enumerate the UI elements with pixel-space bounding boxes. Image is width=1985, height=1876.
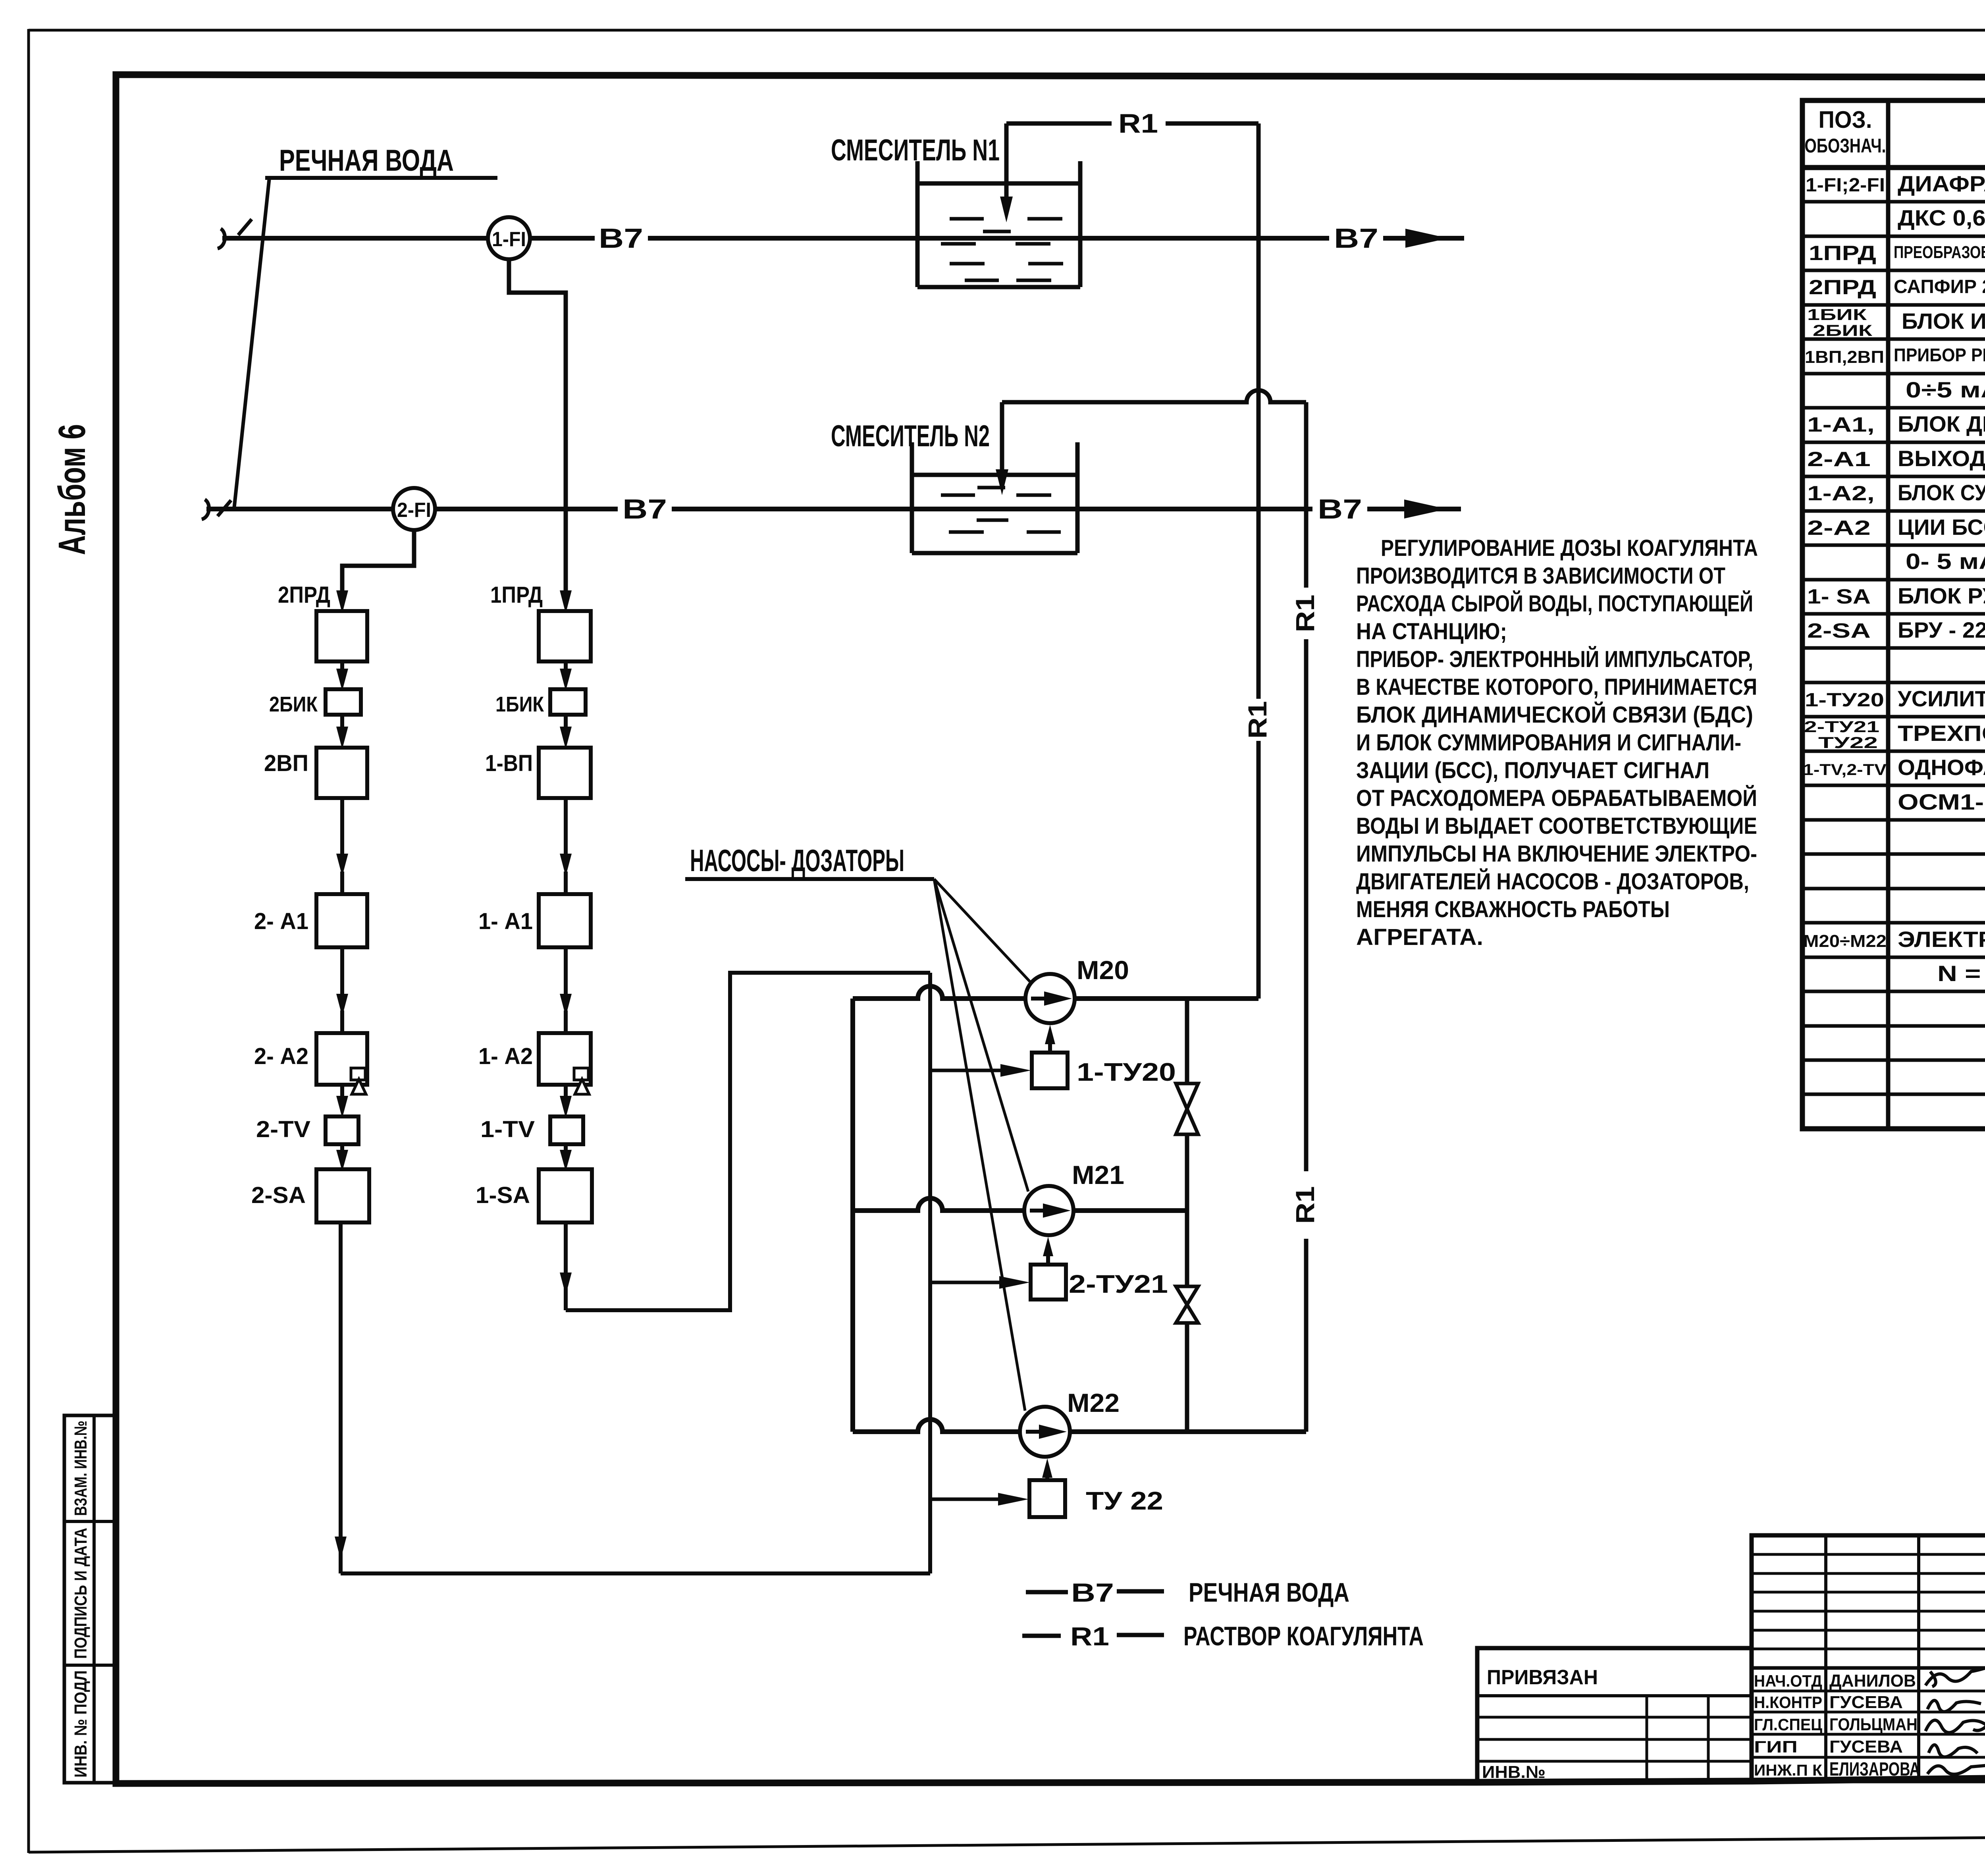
- block 2-TV: [326, 1116, 358, 1144]
- pump M22: [1020, 1407, 1070, 1457]
- svg-text:ДИАФРАГМА КАМЕРНАЯ Ду=200: ДИАФРАГМА КАМЕРНАЯ Ду=200: [1898, 171, 1985, 196]
- svg-text:Н.КОНТР: Н.КОНТР: [1754, 1693, 1822, 1712]
- thyristor unit TU22: [1029, 1480, 1065, 1517]
- svg-text:N = 0,55 кВт: N = 0,55 кВт: [1937, 961, 1985, 986]
- legend B7: [1026, 1590, 1068, 1595]
- alarm symbol on 2-A2: [351, 1068, 365, 1080]
- svg-text:ЕЛИЗАРОВА: ЕЛИЗАРОВА: [1829, 1759, 1920, 1780]
- underline nasosy-dozatory: [685, 877, 934, 881]
- signature squiggle 2: [1927, 1701, 1981, 1712]
- svg-text:БЛОК ДИНАМИЧЕСКОЙ СВЯЗИ (БД: БЛОК ДИНАМИЧЕСКОЙ СВЯЗИ (БДС): [1356, 702, 1753, 728]
- svg-text:ПРИБОР- ЭЛЕКТРОННЫЙ ИМПУЛЬСАТ: ПРИБОР- ЭЛЕКТРОННЫЙ ИМПУЛЬСАТОР,: [1356, 646, 1753, 672]
- svg-text:УСИЛИТЕЛЬ ТИРИСТОРНЫЙ: УСИЛИТЕЛЬ ТИРИСТОРНЫЙ: [1898, 686, 1985, 711]
- svg-text:1ПРД: 1ПРД: [490, 582, 543, 608]
- svg-text:ИНЖ.П К: ИНЖ.П К: [1754, 1762, 1823, 1779]
- svg-text:2ПРД: 2ПРД: [278, 582, 330, 608]
- block 1-SA: [539, 1169, 592, 1222]
- svg-text:ЗАЦИИ (БСС), ПОЛУЧАЕТ СИГНА: ЗАЦИИ (БСС), ПОЛУЧАЕТ СИГНАЛ: [1356, 758, 1709, 783]
- bypass valve line: [1185, 999, 1189, 1084]
- control vertical to thyristor units: [928, 973, 932, 1573]
- svg-text:ГИП: ГИП: [1754, 1737, 1798, 1756]
- svg-text:БЛОК ИЗВЛЕЧЕНИЯ КОРНЯ БИК-1: БЛОК ИЗВЛЕЧЕНИЯ КОРНЯ БИК-1: [1902, 308, 1985, 334]
- inlet slash tick on line 1: [238, 219, 252, 235]
- svg-text:2БИК: 2БИК: [269, 692, 318, 716]
- svg-text:В КАЧЕСТВЕ КОТОРОГО, ПРИНИМ: В КАЧЕСТВЕ КОТОРОГО, ПРИНИМАЕТСЯ: [1356, 674, 1757, 700]
- pipe M22 with hop: [853, 1419, 1020, 1432]
- wire 2-TV to 2-SA: [340, 1144, 344, 1155]
- svg-text:1БИК: 1БИК: [1807, 306, 1867, 324]
- svg-text:2-SA: 2-SA: [1807, 619, 1871, 642]
- inlet slash tick on line 2: [218, 500, 231, 516]
- svg-text:2-А1: 2-А1: [1807, 448, 1871, 471]
- block 2BIK: [326, 689, 361, 715]
- svg-text:ИМПУЛЬСЫ НА ВКЛЮЧЕНИЕ ЭЛЕКТ: ИМПУЛЬСЫ НА ВКЛЮЧЕНИЕ ЭЛЕКТРО-: [1356, 841, 1757, 867]
- svg-text:R1: R1: [1070, 1621, 1109, 1651]
- album side strip: [64, 1415, 116, 1783]
- break mark line 2: [202, 499, 209, 519]
- svg-text:ОТ РАСХОДОМЕРА ОБРАБАТЫВАЕМО: ОТ РАСХОДОМЕРА ОБРАБАТЫВАЕМОЙ: [1356, 785, 1757, 811]
- flow meter 1-FI: [488, 217, 530, 259]
- svg-text:РЕЧНАЯ ВОДА: РЕЧНАЯ ВОДА: [1189, 1577, 1349, 1608]
- svg-text:НАЧ.ОТД: НАЧ.ОТД: [1754, 1672, 1822, 1690]
- mixer 2 ripples: [941, 488, 1061, 532]
- pipe M21 with hop: [853, 1198, 1024, 1211]
- wire 1BIK to 1-VP: [564, 715, 568, 731]
- svg-text:2-ТУ21: 2-ТУ21: [1804, 718, 1879, 736]
- wire 2-A1 to 2-A2: [340, 947, 344, 997]
- block 1-A1: [539, 894, 591, 947]
- svg-text:БРУ - 22. ВЫХОДНОЙ СИГНАЛ: БРУ - 22. ВЫХОДНОЙ СИГНАЛ: [1898, 617, 1985, 642]
- svg-text:ГУСЕВА: ГУСЕВА: [1829, 1737, 1903, 1756]
- svg-text:АГРЕГАТА.: АГРЕГАТА.: [1356, 924, 1483, 950]
- wire 1-A2 to 1-TV: [564, 1085, 568, 1100]
- wire 2VP to 2-A1: [340, 798, 344, 858]
- valve 1: [1176, 1084, 1198, 1134]
- wire 1-VP to 1-A1: [564, 798, 568, 858]
- block 2-A1: [316, 894, 367, 947]
- svg-text:ЭЛЕКТРОДВИГАТЕЛЬ 4АА71А4: ЭЛЕКТРОДВИГАТЕЛЬ 4АА71А4: [1898, 927, 1985, 952]
- wire 2-A2 to 2-TV: [340, 1085, 344, 1100]
- block 2VP: [316, 748, 367, 798]
- svg-text:1-FI;2-FI: 1-FI;2-FI: [1806, 175, 1885, 196]
- pump M21: [1024, 1186, 1073, 1235]
- svg-text:R1: R1: [1290, 1186, 1320, 1224]
- inlet label underline: [265, 176, 497, 180]
- block 1-TV: [550, 1116, 583, 1144]
- svg-text:ИНВ.№: ИНВ.№: [1482, 1762, 1546, 1782]
- svg-text:2ВП: 2ВП: [264, 750, 308, 776]
- block 2-SA: [316, 1169, 369, 1222]
- svg-text:ДАНИЛОВ: ДАНИЛОВ: [1829, 1671, 1916, 1691]
- wire 2BIK to 2VP: [340, 715, 344, 731]
- break mark line 1: [218, 229, 225, 249]
- svg-text:ПРОИЗВОДИТСЯ В ЗАВИСИМОСТИ: ПРОИЗВОДИТСЯ В ЗАВИСИМОСТИ ОТ: [1356, 563, 1725, 589]
- wire R1 vertical A: [1257, 123, 1261, 699]
- svg-text:1БИК: 1БИК: [495, 692, 544, 716]
- wire 2PRD to 2BIK: [340, 661, 344, 673]
- suction manifold vertical: [850, 999, 855, 1432]
- leader to pump M21: [934, 879, 1028, 1192]
- svg-text:РАСХОДА СЫРОЙ ВОДЫ, ПОСТУПА: РАСХОДА СЫРОЙ ВОДЫ, ПОСТУПАЮЩЕЙ: [1356, 591, 1753, 617]
- svg-text:0÷5 мА РП-160-09.: 0÷5 мА РП-160-09.: [1906, 377, 1985, 402]
- svg-text:М20: М20: [1077, 955, 1129, 985]
- svg-text:ПОДПИСЬ И ДАТА: ПОДПИСЬ И ДАТА: [71, 1528, 91, 1659]
- wire R1 top: [1006, 121, 1112, 126]
- svg-text:В7: В7: [1334, 223, 1378, 254]
- wire B7 line 2: [206, 507, 393, 511]
- svg-text:ПОЗ.: ПОЗ.: [1819, 106, 1872, 133]
- alarm symbol on 1-A2: [574, 1068, 588, 1080]
- wire to TU22 input: [930, 1498, 1006, 1501]
- svg-text:МЕНЯЯ СКВАЖНОСТЬ РАБОТЫ: МЕНЯЯ СКВАЖНОСТЬ РАБОТЫ: [1356, 897, 1670, 922]
- arrow B7 line 2: [1404, 499, 1447, 519]
- svg-text:1-А1,: 1-А1,: [1807, 413, 1875, 436]
- signature squiggle 4: [1929, 1745, 1977, 1757]
- svg-text:Альбом 6: Альбом 6: [51, 424, 93, 555]
- svg-text:ДВИГАТЕЛЕЙ НАСОСОВ - ДОЗАТОРО: ДВИГАТЕЛЕЙ НАСОСОВ - ДОЗАТОРОВ,: [1356, 869, 1749, 895]
- mixer 2 feed drop: [1000, 402, 1004, 472]
- svg-text:М20÷М22: М20÷М22: [1803, 931, 1887, 951]
- signature squiggle 3: [1925, 1720, 1985, 1733]
- thyristor unit 2-TU21: [1031, 1265, 1066, 1300]
- paper edge bottom: [29, 1834, 1985, 1852]
- svg-text:1- А1: 1- А1: [478, 908, 533, 934]
- wire 1-A1 to 1-A2: [564, 947, 568, 997]
- wire 2-FI to 2PRD: [342, 530, 414, 594]
- signature squiggle 5: [1927, 1765, 1985, 1774]
- svg-text:2-ТУ21: 2-ТУ21: [1069, 1270, 1168, 1298]
- block 1-VP: [539, 748, 591, 798]
- pipe M20 with hop: [853, 986, 1025, 999]
- block 2-A2: [316, 1033, 367, 1085]
- svg-text:ПРИБОР РЕГИСТРИРУЮЩИЙ,ПРЕДЕЛ И: ПРИБОР РЕГИСТРИРУЮЩИЙ,ПРЕДЕЛ ИЗМЕРЕНИЯ: [1894, 345, 1985, 365]
- svg-text:1ПРД: 1ПРД: [1809, 242, 1876, 265]
- svg-text:БЛОК СУММИРОВАНИЯ И СИГНАЛИ: БЛОК СУММИРОВАНИЯ И СИГНАЛИЗА-: [1898, 480, 1985, 505]
- svg-text:ГЛ.СПЕЦ: ГЛ.СПЕЦ: [1754, 1715, 1822, 1734]
- svg-text:ЦИИ БСС. ВЫХОДНОЙ СИГНАЛ: ЦИИ БСС. ВЫХОДНОЙ СИГНАЛ: [1898, 515, 1985, 540]
- svg-text:1-ВП: 1-ВП: [485, 750, 533, 776]
- svg-text:РЕГУЛИРОВАНИЕ ДОЗЫ КОАГУЛЯНТ: РЕГУЛИРОВАНИЕ ДОЗЫ КОАГУЛЯНТА: [1381, 535, 1758, 561]
- mixer 1 ripples: [941, 219, 1063, 280]
- wire 2-SA output run: [339, 1222, 343, 1573]
- svg-text:1ВП,2ВП: 1ВП,2ВП: [1805, 347, 1884, 367]
- svg-text:БЛОК ДИНАМИЧЕСКОЙ СВЯЗИ БДС: БЛОК ДИНАМИЧЕСКОЙ СВЯЗИ БДС: [1898, 411, 1985, 436]
- svg-text:И БЛОК СУММИРОВАНИЯ И СИГН: И БЛОК СУММИРОВАНИЯ И СИГНАЛИ-: [1356, 730, 1741, 756]
- svg-text:R1: R1: [1290, 595, 1320, 632]
- leader to pump M20: [934, 879, 1030, 981]
- block 1PRD: [539, 611, 591, 661]
- svg-text:В7: В7: [1318, 494, 1362, 524]
- wire to 1-TU20 input: [930, 1069, 1008, 1072]
- wire mixer 2 feed with hop: [1002, 390, 1306, 402]
- svg-text:М22: М22: [1067, 1388, 1120, 1417]
- svg-text:РЕЧНАЯ ВОДА: РЕЧНАЯ ВОДА: [279, 144, 454, 177]
- wire 1PRD to 1BIK: [564, 661, 568, 673]
- block 1BIK: [550, 689, 586, 715]
- svg-text:ТРЕХПОЗИЦИОННЫЙ У-22М: ТРЕХПОЗИЦИОННЫЙ У-22М: [1898, 721, 1985, 746]
- svg-text:РАСТВОР КОАГУЛЯНТА: РАСТВОР КОАГУЛЯНТА: [1183, 1621, 1424, 1651]
- wire 1-SA output run: [564, 1222, 568, 1310]
- wire 1-FI to 1PRD: [509, 259, 566, 594]
- block 2PRD: [316, 611, 367, 661]
- svg-text:1-ТV,2-ТV: 1-ТV,2-ТV: [1803, 761, 1887, 779]
- svg-text:НА СТАНЦИЮ;: НА СТАНЦИЮ;: [1356, 619, 1507, 644]
- mixer 1 tank: [915, 161, 920, 287]
- pump M20: [1025, 974, 1075, 1023]
- svg-text:2- А1: 2- А1: [254, 908, 308, 934]
- svg-text:2-SA: 2-SA: [251, 1182, 306, 1208]
- svg-text:1- А2: 1- А2: [478, 1043, 533, 1069]
- svg-text:В7: В7: [622, 494, 667, 524]
- svg-text:1-ТV: 1-ТV: [480, 1116, 535, 1142]
- leader to pump M22: [934, 879, 1025, 1411]
- svg-text:НАСОСЫ- ДОЗАТОРЫ: НАСОСЫ- ДОЗАТОРЫ: [690, 843, 904, 878]
- svg-text:2-А2: 2-А2: [1807, 517, 1871, 540]
- svg-text:1-FI: 1-FI: [492, 228, 526, 251]
- paper edge left: [27, 29, 30, 1853]
- svg-text:2-ТV: 2-ТV: [256, 1116, 310, 1142]
- wire to 2-TU21 input: [930, 1281, 1008, 1284]
- thyristor unit 1-TU20: [1032, 1053, 1068, 1088]
- svg-text:ГОЛЬЦМАН: ГОЛЬЦМАН: [1829, 1715, 1918, 1734]
- description paragraph: [1356, 535, 1758, 950]
- wire 1-TV to 1-SA: [564, 1144, 568, 1155]
- svg-text:ОДНОФАЗНЫЙ ТРАНСФОРМАТОР: ОДНОФАЗНЫЙ ТРАНСФОРМАТОР: [1898, 755, 1985, 780]
- svg-text:ОБОЗНАЧ.: ОБОЗНАЧ.: [1805, 135, 1886, 157]
- svg-text:R1: R1: [1243, 701, 1272, 739]
- svg-text:2- А2: 2- А2: [254, 1043, 308, 1069]
- svg-text:ГУСЕВА: ГУСЕВА: [1829, 1693, 1903, 1712]
- mixer 2 tank: [910, 442, 914, 553]
- svg-text:В7: В7: [1071, 1578, 1114, 1607]
- flow meter 2-FI: [393, 488, 435, 530]
- svg-text:ВЫХОДНОЙ СИГНАЛ 0-5 мА ~ 220: ВЫХОДНОЙ СИГНАЛ 0-5 мА ~ 220В: [1898, 446, 1985, 471]
- svg-text:1-ТУ20: 1-ТУ20: [1805, 690, 1884, 711]
- svg-text:1- SA: 1- SA: [1807, 585, 1871, 608]
- svg-text:2ПРД: 2ПРД: [1809, 276, 1876, 299]
- wire R1 vertical B: [1304, 402, 1309, 588]
- svg-text:В7: В7: [599, 223, 643, 254]
- svg-text:САПФИР 22ДД.2410-02УХЛ*3.1-0,2: САПФИР 22ДД.2410-02УХЛ*3.1-0,25/0,25 кПа…: [1894, 276, 1985, 297]
- svg-text:ТУ 22: ТУ 22: [1086, 1487, 1163, 1515]
- svg-text:ОСМ1- 0,1: ОСМ1- 0,1: [1898, 789, 1985, 814]
- svg-text:1-SA: 1-SA: [476, 1182, 530, 1208]
- inlet leader diagonal: [234, 179, 269, 507]
- svg-text:ДКС 0,6 200-А-1-а/б-1 ГОСТ 269: ДКС 0,6 200-А-1-а/б-1 ГОСТ 26969-88: [1898, 205, 1985, 230]
- mixer 1 feed drop: [1004, 123, 1009, 201]
- block 1-A2: [539, 1033, 591, 1085]
- svg-text:1-ТУ20: 1-ТУ20: [1077, 1058, 1176, 1086]
- svg-text:М21: М21: [1072, 1160, 1124, 1190]
- svg-text:ТУ22: ТУ22: [1818, 734, 1878, 752]
- title block signature grid: [1752, 1535, 1985, 1781]
- svg-text:БЛОК РУЧНОГО УПРАВЛЕНИЯ.: БЛОК РУЧНОГО УПРАВЛЕНИЯ.: [1898, 583, 1985, 608]
- privyazan box: [1477, 1648, 1752, 1781]
- svg-text:2-FI: 2-FI: [397, 499, 431, 522]
- svg-text:ПРИВЯЗАН: ПРИВЯЗАН: [1487, 1666, 1598, 1689]
- signature squiggle 1: [1925, 1662, 1985, 1685]
- svg-text:ИНВ. № ПОДЛ: ИНВ. № ПОДЛ: [71, 1670, 91, 1778]
- legend R1: [1022, 1634, 1061, 1638]
- svg-text:2БИК: 2БИК: [1813, 322, 1873, 339]
- svg-text:1-А2,: 1-А2,: [1807, 482, 1875, 505]
- svg-text:ВЗАМ. ИНВ.№: ВЗАМ. ИНВ.№: [71, 1421, 91, 1516]
- spec table grid: [1802, 100, 1985, 1129]
- svg-text:0- 5 мА ~ 220В: 0- 5 мА ~ 220В: [1906, 549, 1985, 574]
- paper edge top: [29, 29, 1985, 32]
- valve 2: [1176, 1286, 1198, 1323]
- svg-text:ВОДЫ И ВЫДАЕТ СООТВЕТСТВУЮЩ: ВОДЫ И ВЫДАЕТ СООТВЕТСТВУЮЩИЕ: [1356, 813, 1757, 839]
- svg-text:R1: R1: [1118, 108, 1158, 139]
- wire B7 line 1: [222, 236, 488, 241]
- svg-text:ПРЕОБРАЗОВАТЕЛЬ ИЗМЕРИТЕЛЬНЫЙ: ПРЕОБРАЗОВАТЕЛЬ ИЗМЕРИТЕЛЬНЫЙ РАЗНОСТИ Д…: [1894, 242, 1985, 262]
- arrow B7 line 1: [1405, 229, 1448, 248]
